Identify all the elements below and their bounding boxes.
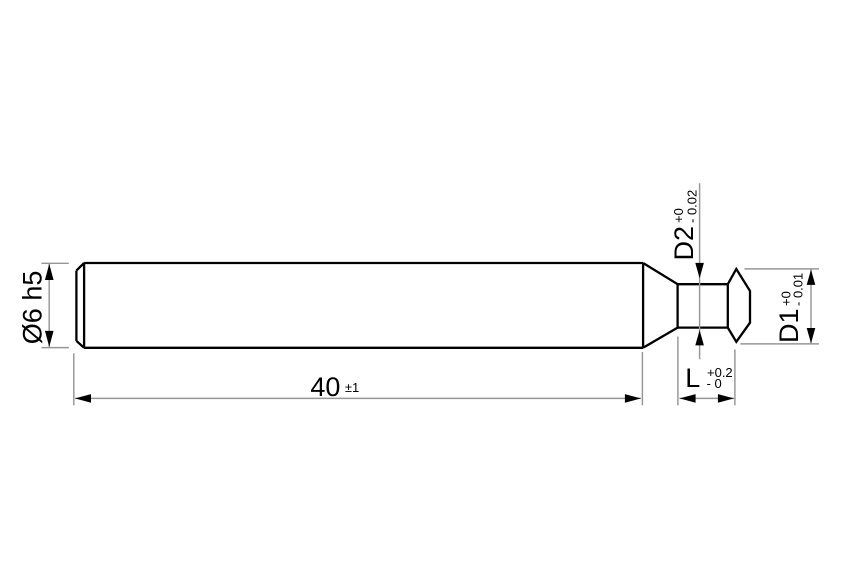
dia6 extension line bottom bbox=[42, 347, 69, 349]
D1 extension line bottom bbox=[740, 343, 819, 345]
neck bottom edge bbox=[678, 326, 728, 328]
shank right face bbox=[642, 263, 644, 348]
neck top edge bbox=[678, 283, 728, 285]
shank chamfer bottom slant bbox=[76, 341, 84, 348]
taper cone bottom bbox=[643, 328, 678, 348]
40 extension line right bbox=[641, 352, 643, 405]
D1 extension line top bbox=[744, 268, 819, 270]
D1 arrow up bbox=[807, 270, 816, 285]
neck left edge bbox=[676, 284, 678, 327]
svg-text:40: 40 bbox=[310, 372, 340, 402]
L extension line right bbox=[734, 350, 736, 406]
L arrow left bbox=[680, 394, 696, 403]
shank bottom edge bbox=[84, 347, 643, 349]
svg-text:- 0.02: - 0.02 bbox=[685, 190, 700, 223]
head left edge bbox=[727, 284, 729, 327]
dia6 dimension line bbox=[48, 264, 50, 347]
dia6 arrow up bbox=[45, 264, 54, 280]
cutter head profile bbox=[728, 269, 750, 342]
svg-text:Ø6 h5: Ø6 h5 bbox=[18, 271, 48, 345]
D1 dimension line bbox=[810, 270, 812, 344]
dimension and extension lines bbox=[42, 183, 819, 405]
L dimension line bbox=[680, 397, 735, 399]
svg-text:D1: D1 bbox=[774, 308, 804, 343]
arrowheads bbox=[45, 263, 815, 403]
40 dimension line bbox=[75, 397, 641, 399]
svg-text:D2: D2 bbox=[669, 226, 699, 261]
D2 arrow up bbox=[695, 330, 704, 345]
shank chamfer edge line bbox=[83, 263, 85, 348]
D2 arrow down bbox=[695, 263, 704, 278]
dia6 extension line top bbox=[42, 262, 69, 264]
taper cone top bbox=[643, 263, 678, 284]
L extension line left bbox=[677, 337, 679, 406]
40 arrow right bbox=[625, 394, 641, 403]
L arrow right bbox=[718, 394, 734, 403]
40 extension line left bbox=[73, 353, 75, 405]
shank top edge bbox=[84, 262, 643, 264]
D1 arrow down bbox=[807, 328, 816, 343]
tool body outline (shank with chamfered end, taper, neck, cutter head) bbox=[76, 263, 750, 348]
dia6 arrow down bbox=[45, 331, 54, 347]
svg-text:L: L bbox=[685, 363, 700, 393]
svg-text:- 0: - 0 bbox=[707, 376, 722, 391]
shank end face bbox=[75, 271, 77, 341]
40 arrow left bbox=[75, 394, 91, 403]
svg-text:±1: ±1 bbox=[345, 380, 359, 395]
svg-text:- 0.01: - 0.01 bbox=[790, 273, 805, 306]
D2 dimension line bbox=[699, 183, 701, 359]
shank chamfer top slant bbox=[76, 263, 84, 271]
